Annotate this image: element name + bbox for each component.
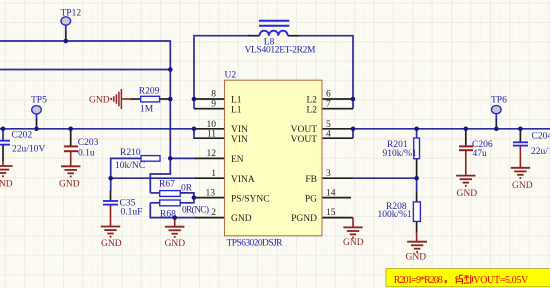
svg-text:9: 9	[211, 100, 216, 110]
svg-text:U2: U2	[225, 71, 237, 81]
svg-text:VLS4012ET-2R2M: VLS4012ET-2R2M	[245, 46, 317, 56]
svg-text:C204: C204	[532, 132, 550, 142]
svg-text:1M: 1M	[140, 105, 154, 115]
svg-text:910k/%1: 910k/%1	[383, 149, 418, 159]
svg-text:10k/NC: 10k/NC	[115, 161, 145, 171]
svg-text:R68: R68	[160, 210, 176, 220]
svg-text:GND: GND	[457, 189, 478, 199]
svg-text:VINA: VINA	[231, 175, 255, 185]
svg-text:TPS63020DSJR: TPS63020DSJR	[227, 239, 284, 249]
svg-text:FB: FB	[305, 175, 317, 185]
svg-text:GND: GND	[0, 180, 13, 190]
svg-text:R209: R209	[139, 87, 160, 97]
svg-text:GND: GND	[512, 181, 533, 191]
svg-text:GND: GND	[406, 252, 427, 262]
svg-text:VOUT: VOUT	[291, 125, 318, 135]
svg-text:VOUT=5.05V: VOUT=5.05V	[473, 275, 529, 286]
svg-text:7: 7	[326, 100, 331, 110]
svg-text:VOUT: VOUT	[291, 135, 318, 145]
svg-text:R67: R67	[159, 180, 175, 190]
svg-text:GND: GND	[231, 214, 252, 224]
svg-text:GND: GND	[343, 238, 364, 248]
svg-text:TP6: TP6	[491, 95, 507, 105]
svg-text:PGND: PGND	[291, 214, 317, 224]
svg-text:L1: L1	[231, 106, 242, 116]
svg-text:0.1uF: 0.1uF	[121, 208, 143, 218]
svg-text:TP5: TP5	[31, 96, 47, 106]
svg-text:22u/10V: 22u/10V	[12, 145, 45, 155]
svg-text:L2: L2	[306, 96, 317, 106]
svg-text:L1: L1	[231, 96, 242, 106]
svg-text:PS/SYNC: PS/SYNC	[231, 194, 270, 204]
svg-text:C202: C202	[12, 131, 33, 141]
svg-text:15: 15	[326, 208, 336, 218]
svg-text:22u/1: 22u/1	[531, 147, 550, 157]
svg-text:TP12: TP12	[61, 9, 82, 19]
svg-text:GND: GND	[89, 96, 110, 106]
svg-text:PG: PG	[305, 194, 317, 204]
svg-text:47u: 47u	[473, 149, 488, 159]
svg-text:EN: EN	[231, 155, 244, 165]
svg-text:C203: C203	[78, 138, 99, 148]
svg-text:R201=9*R208: R201=9*R208	[394, 275, 443, 286]
svg-text:12: 12	[207, 149, 217, 159]
svg-text:14: 14	[326, 188, 336, 198]
svg-text:VIN: VIN	[231, 135, 248, 145]
svg-text:4: 4	[326, 130, 331, 140]
svg-text:13: 13	[206, 188, 216, 198]
svg-text:L2: L2	[306, 106, 317, 116]
svg-text:2: 2	[211, 208, 216, 218]
svg-text:11: 11	[207, 130, 216, 140]
svg-text:10: 10	[207, 120, 217, 130]
svg-text:R210: R210	[120, 148, 141, 158]
svg-text:100k/%1: 100k/%1	[378, 210, 413, 220]
svg-text:8: 8	[211, 90, 216, 100]
svg-text:0.1u: 0.1u	[78, 149, 95, 159]
svg-text:5: 5	[326, 120, 331, 130]
svg-text:6: 6	[326, 90, 331, 100]
svg-text:GND: GND	[165, 239, 186, 249]
svg-text:3: 3	[326, 169, 331, 179]
svg-text:GND: GND	[101, 239, 122, 249]
svg-text:0R: 0R	[181, 184, 193, 194]
svg-text:VIN: VIN	[231, 125, 248, 135]
svg-text:1: 1	[211, 169, 216, 179]
svg-text:GND: GND	[59, 180, 80, 190]
svg-text:0R(NC): 0R(NC)	[182, 205, 209, 216]
